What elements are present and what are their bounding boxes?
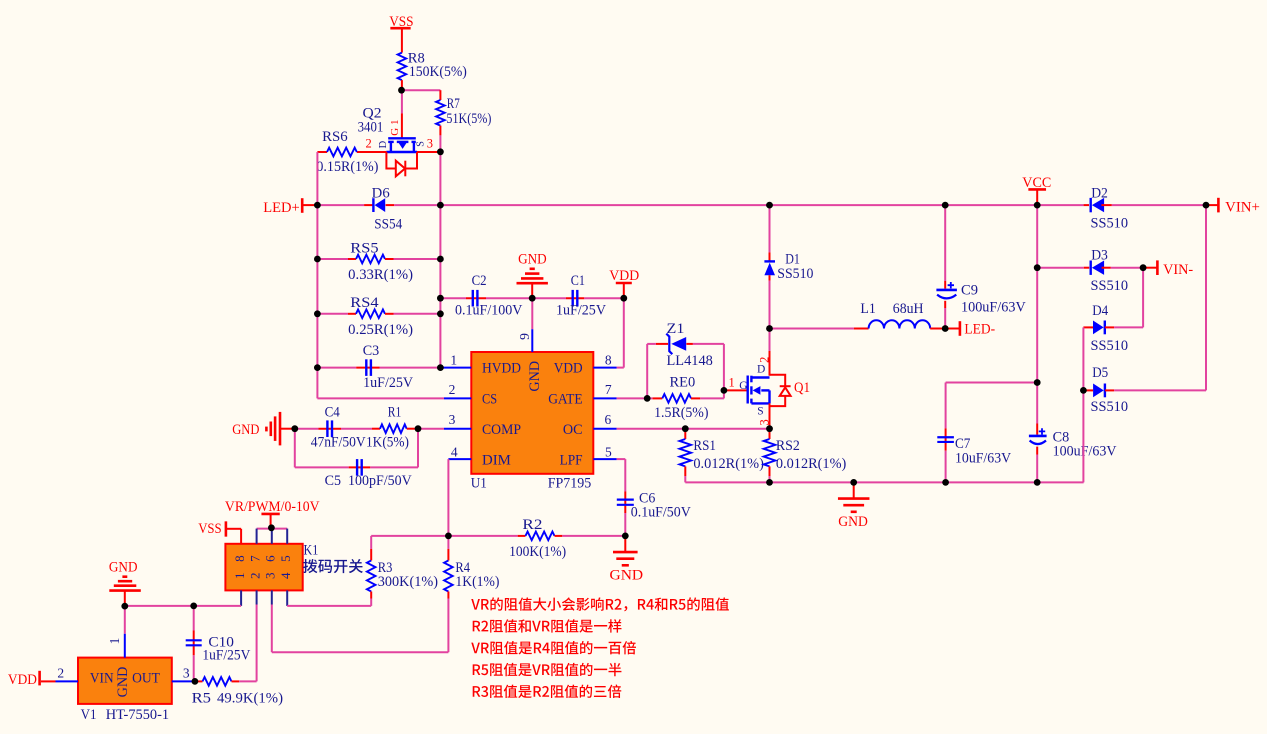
K1 label (DIP switch, Chinese) [303, 559, 363, 573]
capacitor C5 loop wires [294, 429, 296, 468]
svg-text:2: 2 [57, 666, 64, 681]
svg-text:100uF/63V: 100uF/63V [1053, 444, 1117, 460]
annotation line 1 (red Chinese) [471, 597, 729, 611]
svg-text:4: 4 [451, 444, 458, 459]
svg-text:VIN-: VIN- [1163, 262, 1193, 278]
wire Q2 source (right) [417, 151, 440, 153]
svg-text:SS510: SS510 [1091, 278, 1129, 294]
diode D5 SS510 (points right) [1083, 389, 1093, 391]
inductor L1 68uH [770, 328, 854, 330]
diode D4 SS510 (points right) [1083, 326, 1093, 328]
wire COMP row [295, 428, 319, 430]
svg-text:L1: L1 [860, 301, 875, 317]
svg-text:LPF: LPF [560, 453, 583, 469]
switch K1 body [225, 544, 302, 591]
annotation line 5 (red Chinese) [473, 685, 622, 699]
capacitor C6 [624, 492, 626, 514]
resistor R3 [370, 536, 372, 549]
wire VIN- node down to D4 [1142, 268, 1144, 328]
svg-text:VSS: VSS [198, 521, 222, 537]
svg-text:RS4: RS4 [350, 295, 379, 311]
U1 pin 1 HVDD [442, 367, 472, 369]
capacitor C1 [566, 297, 584, 299]
wire pin 9 to GND node [531, 298, 533, 329]
svg-text:7: 7 [605, 382, 612, 397]
svg-text:LED-: LED- [964, 322, 995, 338]
resistor RS5 [317, 258, 348, 260]
svg-text:CS: CS [482, 391, 497, 407]
resistor RS4 [317, 313, 348, 315]
svg-text:5: 5 [278, 555, 293, 562]
svg-text:3: 3 [263, 573, 278, 580]
svg-text:SS510: SS510 [777, 266, 813, 282]
wire Z1 loop left [646, 344, 648, 399]
svg-text:GND: GND [115, 667, 131, 698]
svg-text:GND: GND [518, 251, 547, 267]
svg-text:300K(1%): 300K(1%) [378, 574, 438, 590]
svg-text:1uF/25V: 1uF/25V [202, 648, 250, 664]
svg-text:2: 2 [247, 573, 262, 580]
svg-text:1uF/25V: 1uF/25V [363, 375, 413, 391]
svg-text:D4: D4 [1092, 303, 1109, 319]
wire Q1 drain up [769, 351, 771, 376]
capacitor C8 (polarized) [1036, 383, 1038, 424]
U1 pin 7 GATE [593, 397, 616, 399]
wire VSS to R8 [401, 29, 403, 53]
svg-text:VIN+: VIN+ [1225, 200, 1260, 216]
wire R8 junction to R7 top [402, 89, 441, 91]
wire LPF pin5 to C6 [617, 458, 626, 460]
wire R1 to COMP pin 3 [415, 428, 445, 430]
wire GND node to C1 [532, 297, 566, 299]
wire R2 to C6 node [562, 535, 625, 537]
diode D2 SS510 [1084, 204, 1089, 206]
U1 pin 8 VDD [593, 367, 616, 369]
svg-text:3401: 3401 [358, 119, 384, 135]
svg-text:1: 1 [729, 375, 735, 389]
svg-text:C2: C2 [472, 273, 487, 289]
svg-text:1: 1 [107, 638, 122, 645]
svg-text:VDD: VDD [8, 672, 37, 688]
svg-text:1: 1 [450, 352, 457, 367]
svg-text:GATE: GATE [548, 391, 582, 407]
wire LED+ bus middle [394, 204, 440, 206]
svg-text:C9: C9 [961, 282, 978, 298]
resistor R8 [398, 53, 407, 81]
resistor R1 [372, 428, 380, 430]
svg-text:RS2: RS2 [776, 438, 800, 454]
svg-text:100K(1%): 100K(1%) [509, 544, 566, 560]
transistor Q1 (MOSFET) [724, 389, 747, 391]
wire RS6 down to LED+ line [316, 152, 318, 205]
svg-text:1: 1 [389, 120, 401, 126]
resistor RS1 [684, 429, 686, 439]
wire D3 row [1037, 267, 1084, 269]
annotation line 2 (red Chinese) [473, 619, 622, 632]
svg-text:1uF/25V: 1uF/25V [556, 302, 606, 318]
wire D4 to VIN- corner [1114, 326, 1143, 328]
capacitor C5 [349, 466, 371, 468]
K1 pin leads bottom [240, 590, 242, 606]
junction dots [398, 87, 405, 94]
wire gate of Q2 from R8 junction [401, 90, 403, 113]
svg-text:V1: V1 [81, 707, 97, 723]
svg-text:VR/PWM/0-10V: VR/PWM/0-10V [225, 499, 320, 515]
svg-text:D: D [378, 140, 389, 148]
capacitor C2 [466, 297, 486, 299]
svg-text:0.25R(1%): 0.25R(1%) [348, 322, 413, 338]
svg-text:D1: D1 [785, 251, 800, 267]
svg-text:R1: R1 [388, 404, 402, 420]
wire GND node down to V1 pin 1 [124, 606, 126, 634]
svg-text:GND: GND [527, 361, 543, 392]
resistor RS6 [317, 151, 327, 153]
resistor RS2 [769, 429, 771, 439]
svg-text:0.15R(1%): 0.15R(1%) [316, 159, 378, 175]
wire LED+ bus left [317, 204, 364, 206]
svg-text:G: G [389, 128, 401, 136]
svg-text:49.9K(1%): 49.9K(1%) [217, 691, 283, 707]
wire D5 to VIN+ column [1114, 389, 1206, 391]
svg-text:Q1: Q1 [794, 380, 810, 396]
svg-text:10uF/63V: 10uF/63V [955, 451, 1012, 467]
voltage regulator V1 HT-7550-1 body [78, 658, 172, 704]
svg-text:C5: C5 [325, 473, 341, 489]
wire C6 down to R2 node [624, 513, 626, 536]
svg-text:6: 6 [605, 412, 612, 427]
wire Q2 drain (left) to RS6 [357, 151, 387, 153]
svg-text:VIN: VIN [90, 671, 114, 687]
annotation line 3 (red Chinese) [471, 641, 636, 655]
diode D6 (SS54) [364, 204, 373, 206]
wire C1 to VDD node [584, 297, 624, 299]
wire VCC column [1036, 205, 1038, 268]
resistor R2 [518, 535, 526, 537]
svg-text:3: 3 [183, 666, 190, 681]
svg-text:150K(5%): 150K(5%) [409, 64, 467, 80]
svg-text:2: 2 [366, 137, 372, 151]
capacitor C9 (polarized) [944, 205, 946, 281]
svg-text:RS1: RS1 [693, 438, 716, 454]
svg-text:C4: C4 [325, 404, 341, 420]
svg-text:SS510: SS510 [1091, 338, 1129, 354]
svg-text:3: 3 [449, 412, 456, 427]
svg-text:HT-7550-1: HT-7550-1 [106, 707, 169, 723]
wire K1 top pins bus [257, 528, 288, 530]
svg-text:100pF/50V: 100pF/50V [348, 473, 412, 489]
svg-text:RS5: RS5 [350, 240, 378, 256]
svg-text:RE0: RE0 [670, 374, 696, 390]
resistor RE0 [653, 397, 663, 399]
svg-text:0.33R(1%): 0.33R(1%) [348, 267, 413, 283]
svg-text:C3: C3 [363, 343, 380, 359]
wire VDD node down to pin 8 [623, 298, 625, 367]
wire K1 pin4 bus to R3 bottom [287, 605, 371, 607]
wire R7 bottom to S node [439, 135, 441, 205]
svg-text:5: 5 [605, 444, 612, 459]
wire D3 to VIN- [1111, 267, 1143, 269]
wire left column (LED+ to CS) [316, 205, 318, 398]
svg-text:DIM: DIM [482, 453, 511, 469]
wire Z1 loop right [693, 343, 724, 345]
svg-text:SS54: SS54 [374, 217, 403, 233]
net label VIN+ [1206, 204, 1218, 206]
svg-text:GND: GND [232, 422, 259, 438]
svg-text:D6: D6 [372, 185, 390, 201]
svg-text:D2: D2 [1091, 185, 1108, 201]
Q1 body diode (red) [770, 375, 786, 386]
svg-text:R5: R5 [192, 691, 211, 707]
svg-text:C1: C1 [571, 273, 585, 289]
svg-text:8: 8 [605, 352, 612, 367]
ground symbol GND (below R2/C6) [624, 536, 626, 552]
wire D4 left down to D5 [1082, 327, 1084, 390]
svg-text:R7: R7 [447, 96, 460, 112]
svg-text:47nF/50V: 47nF/50V [311, 435, 366, 451]
svg-text:100uF/63V: 100uF/63V [961, 300, 1026, 316]
op-amp U1 FP7195 body [471, 352, 593, 474]
wire C7 top to VCC column [946, 382, 1038, 384]
svg-text:1.5R(5%): 1.5R(5%) [654, 405, 709, 421]
svg-text:51K(5%): 51K(5%) [446, 111, 491, 127]
wire K1 pin3 to R4 bottom [271, 605, 273, 653]
wire K1 pin2 down to R5 [256, 605, 258, 682]
svg-text:OUT: OUT [132, 671, 160, 687]
wire HVDD pin1 [440, 367, 444, 369]
wire D5 column to bottom rail [1082, 390, 1084, 482]
svg-text:1K(5%): 1K(5%) [366, 435, 409, 451]
svg-text:D5: D5 [1092, 365, 1108, 381]
svg-text:D: D [757, 364, 765, 376]
svg-text:4: 4 [278, 572, 293, 579]
wire C2 row from right column [440, 297, 466, 299]
svg-text:1K(1%): 1K(1%) [455, 574, 499, 590]
wire OC pin6 row [617, 428, 686, 430]
net label VIN- [1143, 267, 1157, 269]
wire DIM pin4 down [447, 459, 449, 536]
wire R2 row left [448, 535, 517, 537]
svg-text:U1: U1 [471, 476, 487, 492]
diode D3 SS510 [1084, 267, 1089, 269]
annotation line 4 (red Chinese) [473, 663, 622, 676]
V1 pin 1 (GND, top) [124, 634, 126, 658]
svg-text:LED+: LED+ [263, 200, 300, 216]
resistor R5 [195, 680, 203, 682]
svg-text:R2: R2 [522, 517, 542, 533]
svg-text:S: S [415, 141, 426, 147]
svg-text:RS6: RS6 [322, 129, 348, 145]
svg-text:GND: GND [838, 514, 868, 530]
capacitor C3 [317, 367, 356, 369]
capacitor C10 [193, 606, 195, 631]
svg-text:68uH: 68uH [893, 301, 924, 317]
U1 pin 5 LPF [593, 458, 616, 460]
svg-text:GND: GND [109, 559, 138, 575]
svg-text:HVDD: HVDD [482, 361, 521, 377]
V1 pin 3 OUT [172, 680, 193, 682]
ground symbol GND (below RS) [853, 482, 855, 498]
svg-text:VDD: VDD [554, 361, 583, 377]
resistor R7 [439, 90, 441, 100]
svg-text:2: 2 [449, 382, 456, 397]
svg-text:0.012R(1%): 0.012R(1%) [693, 456, 764, 472]
svg-text:6: 6 [263, 555, 278, 562]
svg-text:Z1: Z1 [667, 321, 685, 337]
wire right column R7-S node down to HVDD row [439, 205, 441, 368]
svg-text:1: 1 [232, 573, 247, 580]
K1 pin leads top [256, 529, 258, 544]
svg-text:OC: OC [563, 422, 583, 438]
wire C4 to R1 [341, 428, 372, 430]
U1 pin 4 DIM [448, 458, 471, 460]
svg-text:0.1uF/100V: 0.1uF/100V [455, 302, 523, 318]
svg-text:0.1uF/50V: 0.1uF/50V [631, 505, 691, 521]
wire LED+ bus long [440, 204, 1083, 206]
svg-text:G: G [739, 380, 747, 392]
resistor R4 [447, 536, 449, 549]
wire bottom rail (sense ground) [685, 481, 1083, 483]
svg-text:0.012R(1%): 0.012R(1%) [776, 456, 847, 472]
wire RE0 to Q1 gate node [700, 397, 724, 399]
wire K1 pin1 bus left [125, 605, 241, 607]
svg-text:FP7195: FP7195 [548, 476, 592, 492]
svg-text:8: 8 [232, 555, 247, 562]
U1 pin 3 COMP [444, 428, 471, 430]
svg-text:GND: GND [610, 568, 644, 584]
wire D2 to VIN+ [1112, 204, 1206, 206]
net label LED- [945, 328, 960, 330]
svg-text:7: 7 [247, 555, 262, 562]
svg-text:SS510: SS510 [1091, 399, 1129, 415]
wire C2 to GND node [486, 297, 532, 299]
wire Q1 source down [769, 403, 771, 428]
wire GATE pin7 to RE0 [617, 397, 653, 399]
U1 pin 9 GND (top) [531, 329, 533, 352]
diode D1 SS510 (vertical) [769, 205, 771, 252]
svg-text:3: 3 [427, 137, 433, 151]
U1 pin 2 CS [444, 397, 471, 399]
wire R3/R4 top row [371, 535, 448, 537]
svg-text:9: 9 [517, 333, 532, 340]
svg-text:COMP: COMP [482, 422, 521, 438]
svg-text:D3: D3 [1091, 248, 1108, 264]
svg-text:S: S [757, 405, 763, 417]
svg-text:LL4148: LL4148 [667, 353, 713, 369]
svg-text:SS510: SS510 [1091, 215, 1129, 231]
U1 pin 6 OC [593, 428, 616, 430]
capacitor C4 [318, 428, 341, 430]
svg-text:C7: C7 [955, 436, 970, 452]
capacitor C7 [945, 383, 947, 429]
svg-text:K1: K1 [304, 543, 319, 559]
